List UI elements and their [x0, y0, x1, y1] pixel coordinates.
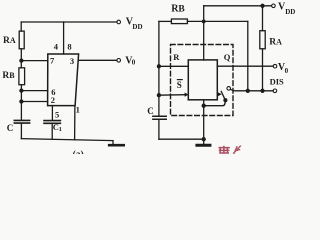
svg-text:R: R — [173, 52, 180, 62]
svg-text:DD: DD — [132, 23, 142, 31]
arrow S input — [185, 93, 189, 97]
capacitor C (a) — [14, 120, 29, 123]
resistor RB (a) — [19, 68, 25, 85]
resistor RA (b) — [260, 31, 265, 49]
node VDD terminal (b) — [272, 4, 276, 8]
svg-text:A: A — [276, 38, 282, 47]
wire pins 4,8 to VDD rail — [63, 22, 65, 54]
node pin7 junction — [20, 59, 23, 62]
wire R input — [159, 65, 188, 67]
svg-text:(a): (a) — [73, 149, 84, 154]
svg-text:3: 3 — [70, 56, 74, 66]
node ground junction (b) — [202, 138, 205, 141]
ground (a) — [112, 141, 114, 145]
resistor RA (a) — [19, 31, 24, 49]
wire Q output to V0 — [217, 65, 273, 67]
node RA-DIS junction — [261, 89, 264, 92]
wire FF bottom down to ground — [203, 100, 205, 139]
wire RA bottom to RB — [20, 49, 22, 68]
svg-text:C: C — [7, 123, 14, 133]
svg-text:0: 0 — [285, 67, 289, 75]
wire RB left — [159, 20, 172, 22]
node switch pivot — [224, 99, 227, 102]
wire C1 bottom — [51, 124, 53, 139]
wire RB bottom down to C — [20, 85, 22, 120]
wire RA bottom to DIS — [262, 49, 264, 91]
wire: right bottom rail — [159, 138, 204, 140]
wire RA top — [20, 22, 22, 31]
wire: right top rail — [204, 5, 272, 7]
red watermark — [219, 146, 241, 154]
capacitor C1 — [44, 121, 60, 124]
node DIS terminal — [273, 89, 277, 93]
node R-input junction — [157, 65, 160, 68]
svg-text:8: 8 — [67, 42, 71, 52]
capacitor C (b) — [153, 116, 166, 119]
wire RA top — [262, 6, 264, 31]
switch contact circle — [227, 87, 231, 91]
svg-text:5: 5 — [55, 109, 59, 119]
wire pin 7 — [21, 60, 47, 62]
svg-text:2: 2 — [51, 95, 55, 105]
wire C bottom — [20, 124, 22, 139]
IC 555 box U1 — [48, 54, 79, 106]
wire pin 6 — [21, 90, 47, 92]
switch blade — [221, 91, 225, 100]
resistor RB (b) — [171, 19, 187, 24]
wire: left bottom rail — [21, 139, 113, 141]
arrow to switch from FF — [216, 93, 219, 95]
svg-text:0: 0 — [132, 58, 136, 66]
svg-text:Q: Q — [224, 52, 231, 62]
svg-text:1: 1 — [59, 126, 62, 133]
wire DIS — [231, 89, 274, 91]
svg-text:A: A — [10, 36, 16, 45]
wire R-line vertical from VDD rail to FF top — [203, 6, 205, 60]
node RB crossing — [202, 20, 205, 23]
wire switch pivot return — [204, 100, 226, 106]
wire pin 1 — [74, 106, 76, 140]
flip-flop box — [188, 60, 217, 100]
wire: left top rail VDD — [21, 21, 117, 23]
svg-text:DD: DD — [285, 8, 295, 16]
node V0 terminal (a) — [117, 59, 121, 63]
wire S input — [159, 94, 185, 97]
node on DIS wire — [246, 89, 249, 92]
svg-text:1: 1 — [76, 105, 80, 115]
node switch-return junction — [202, 104, 205, 107]
ground (b) — [203, 139, 205, 144]
wire: right spine from RB node down to C — [158, 21, 160, 115]
wire RB right to corner — [187, 20, 247, 22]
svg-text:C: C — [147, 106, 154, 116]
wire pin 3 output — [78, 59, 117, 61]
node V0 terminal (b) — [273, 64, 277, 68]
dashed box 555 internal — [171, 45, 234, 116]
wire C bottom (b) — [158, 120, 160, 139]
wire corner vertical down to DIS rail — [247, 21, 249, 90]
wire pin 5 — [51, 106, 53, 120]
node RA junction top — [261, 4, 264, 7]
svg-text:4: 4 — [54, 42, 59, 52]
svg-text:B: B — [178, 5, 185, 15]
node S-input junction — [157, 94, 160, 97]
svg-text:S: S — [177, 80, 182, 90]
node VDD terminal (a) — [117, 20, 121, 24]
node pin6 junction — [20, 89, 23, 92]
svg-text:DIS: DIS — [270, 77, 284, 87]
wire pin 2 — [21, 101, 47, 103]
node pin2 junction — [20, 100, 23, 103]
svg-text:B: B — [9, 71, 15, 80]
